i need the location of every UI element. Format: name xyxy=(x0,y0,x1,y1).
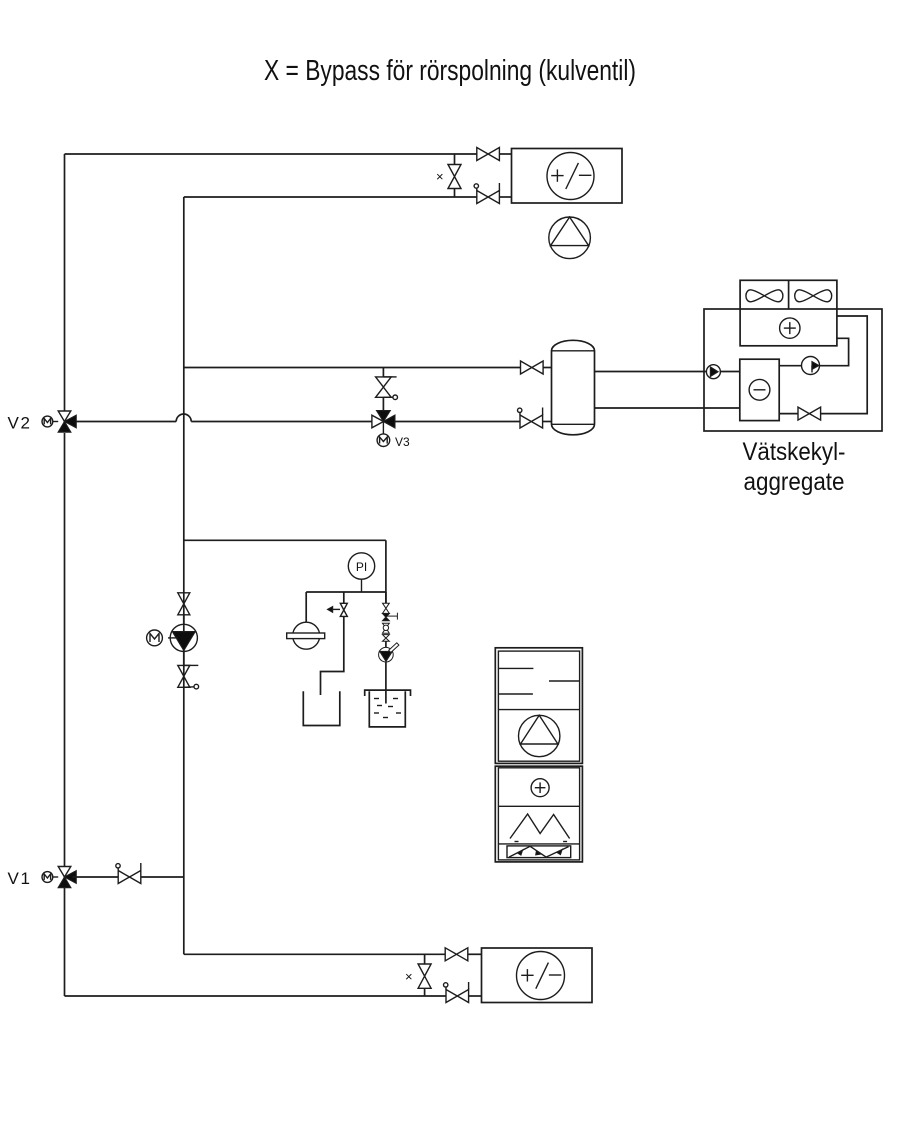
valve tank lower-left bowtie with port xyxy=(518,408,543,429)
fan 2 xyxy=(795,290,832,302)
valve top right return bowtie with port xyxy=(474,183,499,204)
panel legend box A inner xyxy=(498,651,579,761)
wire sample stem xyxy=(385,641,387,647)
valve top right supply bowtie xyxy=(477,148,500,161)
box heat meter top (+/-) xyxy=(512,149,623,204)
valve sample filled with tee handle xyxy=(383,613,398,621)
wire V3 to tank valve xyxy=(395,421,520,423)
panel terminal line 1 xyxy=(498,667,533,669)
wire gauge manifold xyxy=(306,591,386,593)
wire second pipe top xyxy=(184,196,477,198)
wire top supply pipe stub xyxy=(500,153,512,155)
valve check with arrow xyxy=(328,603,348,616)
pump chiller internal P2 xyxy=(802,357,820,375)
valve below pump with drain xyxy=(178,665,199,688)
wire bottom pipe lower xyxy=(65,995,447,997)
svg-text:×: × xyxy=(436,169,444,184)
wire V1 branch right xyxy=(141,876,184,878)
pump chiller inlet P1 xyxy=(706,365,720,379)
panel divider B2 xyxy=(498,843,579,845)
valve X bypass bottom (kulventil) xyxy=(418,964,431,988)
wire fan cell divider xyxy=(788,280,790,309)
wire pipe to tank top xyxy=(184,367,521,369)
svg-text:PI: PI xyxy=(356,560,367,574)
svg-text:V1: V1 xyxy=(8,869,32,888)
panel terminal line 3 xyxy=(498,693,533,695)
panel terminal line 2 xyxy=(549,680,580,682)
valve bottom supply bowtie xyxy=(445,948,468,961)
tank buffer vessel xyxy=(552,340,595,435)
wire V2 branch to V3 xyxy=(191,421,372,423)
wire left main riser xyxy=(64,154,66,411)
wire evaporator valve line xyxy=(779,413,798,415)
wire second riser xyxy=(183,197,185,954)
wire to expansion vessel xyxy=(305,592,307,622)
svg-text:×: × xyxy=(405,969,413,984)
gauge +/- circle top xyxy=(547,153,594,200)
wire bottom pipe upper xyxy=(184,953,445,955)
pump middle motorized xyxy=(147,624,198,651)
wire valve to outer right riser xyxy=(821,316,868,414)
wire tank to chiller upper xyxy=(595,371,707,373)
wire middle drain branch lower xyxy=(321,616,344,695)
wire tank to chiller lower xyxy=(595,407,740,409)
wire V2 branch left xyxy=(73,421,177,423)
valve sample hourglass 2 xyxy=(383,635,390,642)
panel legend box B inner xyxy=(498,768,579,860)
valve sample hourglass 1 xyxy=(383,603,390,613)
gauge PI manometer xyxy=(348,553,374,592)
wire bottom pipe lower stub xyxy=(469,995,482,997)
wire middle branch horizontal xyxy=(184,539,386,541)
panel conveyor strip xyxy=(507,846,571,858)
valve tank upper-left bowtie xyxy=(521,361,544,374)
wire bypass bottom vertical xyxy=(454,189,456,198)
wire bottom pipe upper stub xyxy=(468,953,482,955)
box heat meter bottom (+/-) xyxy=(482,948,593,1003)
svg-text:V2: V2 xyxy=(8,414,32,433)
wire hop over riser xyxy=(176,414,191,421)
valve V3 branch upper xyxy=(376,377,398,400)
valve X bypass top (kulventil) xyxy=(448,165,461,189)
valve V1 branch bowtie with port xyxy=(116,863,141,884)
wire sample to bucket xyxy=(385,662,387,703)
pump top right circulation xyxy=(549,217,591,259)
wire bypass bottom verticals xyxy=(424,954,426,964)
pump symbol in panel xyxy=(519,715,560,756)
box evaporator inner xyxy=(740,359,779,420)
wire V3 branch vertical top xyxy=(382,368,384,377)
panel legend box B outer xyxy=(495,766,582,862)
box chiller fan section xyxy=(740,280,837,346)
wire second pipe stub xyxy=(500,196,512,198)
svg-text:X = Bypass för rörspolning (ku: X = Bypass för rörspolning (kulventil) xyxy=(264,55,636,87)
wire bypass top vertical xyxy=(454,154,456,165)
panel divider A xyxy=(498,709,579,711)
svg-text:aggregate: aggregate xyxy=(744,468,845,496)
sampling cock with lever xyxy=(379,643,399,662)
wire tank lower stub xyxy=(543,421,552,423)
valve bottom return bowtie with port xyxy=(444,982,469,1003)
valve chiller bypass bowtie xyxy=(798,407,821,420)
wire pump2 to right riser xyxy=(819,338,848,365)
wire pump to lower valve xyxy=(183,652,185,666)
wire left main riser bottom xyxy=(64,888,66,996)
wire sample branch upper xyxy=(385,592,387,603)
wire pump1 to evaporator xyxy=(720,371,740,373)
fan 1 xyxy=(746,290,783,302)
panel legend box A outer xyxy=(495,648,582,764)
svg-text:Vätskekyl-: Vätskekyl- xyxy=(743,438,846,466)
valve V2 three-way motorized xyxy=(42,411,76,432)
valve above middle pump xyxy=(178,593,190,615)
gauge plus circle condenser xyxy=(780,318,800,338)
wire valve to pump xyxy=(183,615,185,625)
wire middle branch down xyxy=(385,540,387,603)
gauge plus circle panel xyxy=(531,779,549,797)
wire V1 branch left xyxy=(73,876,119,878)
box chiller outer xyxy=(704,309,882,431)
bucket right with liquid xyxy=(365,690,411,727)
wire left main riser lower xyxy=(64,433,66,867)
bucket left xyxy=(303,691,340,725)
panel divider B1 xyxy=(498,805,579,807)
gauge +/- circle bottom xyxy=(517,952,565,1000)
wire evaporator to pump2 xyxy=(779,365,802,367)
valve V3 three-way motorized xyxy=(372,411,395,447)
gauge minus circle evaporator xyxy=(749,379,770,400)
wire middle drain branch upper xyxy=(343,592,345,603)
wire top supply pipe xyxy=(65,153,477,155)
valve V1 three-way motorized xyxy=(42,867,76,888)
svg-text:V3: V3 xyxy=(395,435,410,449)
panel mountains glyph xyxy=(510,814,570,842)
valve sample hourglass with disc xyxy=(383,623,390,633)
expansion vessel xyxy=(287,622,325,649)
wire pipe tank top stub xyxy=(543,367,552,369)
wire V3 branch vertical mid xyxy=(382,397,384,410)
